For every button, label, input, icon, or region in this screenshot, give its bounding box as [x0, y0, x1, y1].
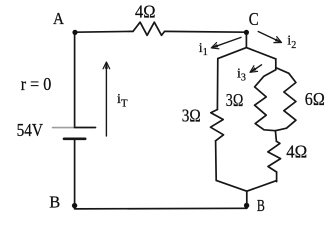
wire C split to left branch	[218, 48, 247, 59]
node B right junction dot	[244, 203, 249, 208]
wire left branch below resistor	[215, 141, 218, 181]
wire junction down to node B right	[246, 191, 248, 208]
svg-text:3Ω: 3Ω	[226, 90, 244, 110]
wire C split to right branch	[246, 48, 275, 59]
resistor R5 4ohm (right branch)	[268, 141, 281, 172]
current arrow i2	[258, 32, 280, 43]
svg-text:4Ω: 4Ω	[286, 141, 307, 161]
svg-text:4Ω: 4Ω	[135, 2, 156, 22]
wire bottom B to B	[75, 207, 247, 210]
resistor R3 3ohm (parallel left)	[255, 70, 276, 131]
current arrow i3 head	[250, 66, 258, 73]
resistor R4 6ohm (parallel right)	[275, 68, 296, 131]
battery V1 negative plate	[64, 138, 85, 141]
wire left side A down to battery +	[74, 32, 76, 127]
svg-text:6Ω: 6Ω	[305, 89, 325, 109]
svg-text:B: B	[49, 193, 60, 212]
wire right branch below resistor	[276, 172, 278, 182]
wire left branch down to resistor	[216, 59, 218, 110]
resistor R2 3ohm (left branch)	[211, 110, 224, 141]
battery V1 positive plate gray part	[53, 127, 75, 129]
svg-text:3Ω: 3Ω	[182, 105, 201, 125]
wire parallel pair top stub	[275, 59, 277, 70]
svg-text:B: B	[257, 196, 265, 215]
node B left junction dot	[72, 203, 77, 208]
wire resistor to node C	[165, 30, 247, 33]
resistor R1 4ohm (top)	[133, 22, 165, 35]
wire top left A to resistor	[75, 30, 133, 33]
battery V1 positive plate dark part	[75, 127, 96, 129]
wire right branch diagonal to node B	[247, 181, 277, 192]
current arrow i1	[212, 37, 241, 47]
current arrow i3	[251, 65, 262, 72]
svg-text:r = 0: r = 0	[21, 74, 52, 94]
wire node C stub down	[245, 32, 247, 47]
node A junction dot	[72, 30, 77, 35]
current arrow i1 head	[211, 43, 219, 49]
wire parallel pair bottom stub	[275, 131, 276, 142]
wire battery - down to node B left	[74, 140, 76, 209]
current arrow i2 head	[274, 37, 282, 43]
current arrow iT shaft	[105, 63, 107, 136]
current arrow iT head	[103, 62, 110, 69]
svg-text:54V: 54V	[17, 120, 43, 140]
svg-text:C: C	[249, 9, 259, 29]
svg-text:A: A	[53, 9, 65, 28]
node C junction dot	[244, 30, 249, 35]
wire left branch diagonal to node B	[216, 180, 247, 191]
